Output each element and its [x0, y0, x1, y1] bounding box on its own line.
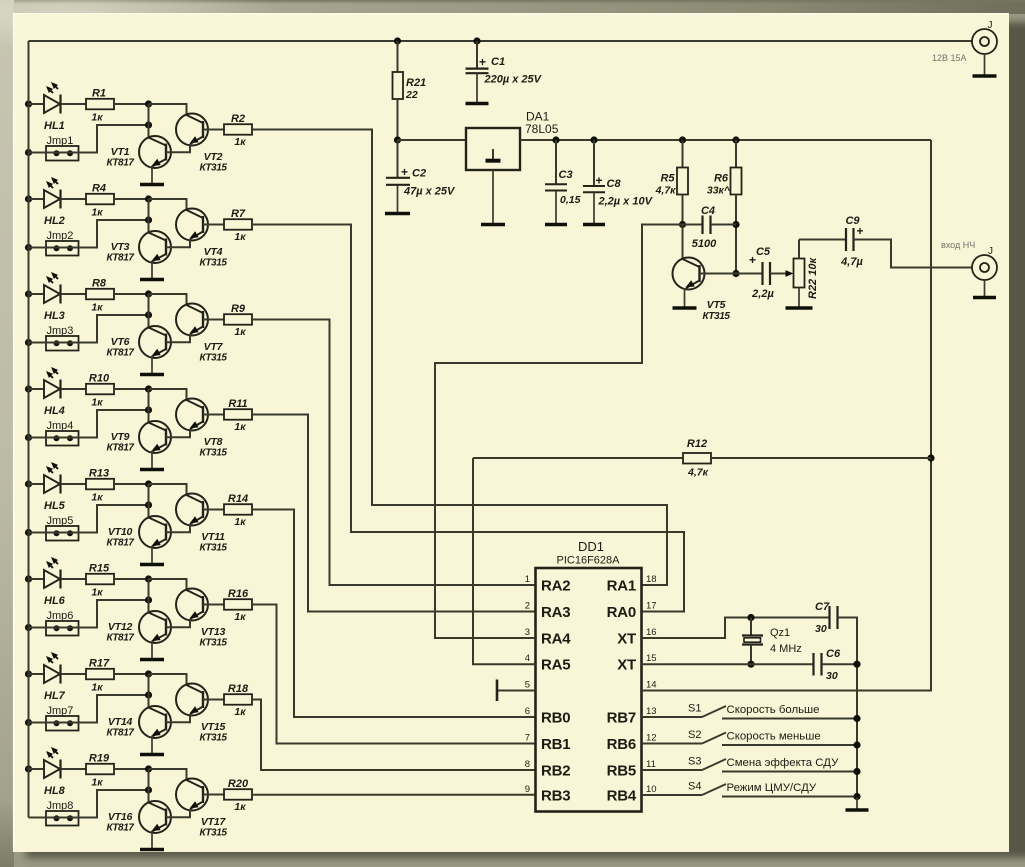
- svg-text:14: 14: [646, 680, 657, 691]
- svg-text:VT6: VT6: [111, 336, 130, 348]
- svg-text:VT12: VT12: [108, 621, 133, 633]
- svg-text:RA5: RA5: [541, 657, 570, 674]
- svg-text:VT16: VT16: [108, 811, 133, 823]
- svg-text:R8: R8: [92, 278, 107, 290]
- svg-text:2,2µ: 2,2µ: [751, 288, 774, 300]
- svg-text:вход НЧ: вход НЧ: [941, 240, 975, 250]
- svg-text:S3: S3: [688, 756, 701, 768]
- svg-text:1к: 1к: [234, 801, 246, 813]
- svg-text:13: 13: [646, 706, 657, 717]
- svg-text:RA4: RA4: [541, 631, 571, 648]
- svg-text:C8: C8: [607, 178, 622, 190]
- svg-text:КТ817: КТ817: [106, 538, 134, 549]
- svg-text:R1: R1: [92, 88, 106, 100]
- svg-text:33к^: 33к^: [707, 185, 731, 197]
- svg-text:7: 7: [525, 733, 530, 744]
- svg-text:R9: R9: [231, 303, 246, 315]
- svg-text:HL3: HL3: [44, 310, 65, 322]
- svg-text:R21: R21: [406, 77, 426, 89]
- svg-text:220µ x 25V: 220µ x 25V: [484, 74, 543, 86]
- svg-text:18: 18: [646, 574, 657, 585]
- svg-text:PIC16F628A: PIC16F628A: [557, 555, 621, 567]
- svg-text:КТ817: КТ817: [106, 823, 134, 834]
- svg-text:4 MHz: 4 MHz: [770, 643, 802, 655]
- svg-text:J: J: [988, 20, 993, 31]
- svg-text:3: 3: [525, 627, 530, 638]
- svg-text:RB7: RB7: [607, 710, 636, 727]
- svg-text:Qz1: Qz1: [770, 627, 790, 639]
- svg-text:VT3: VT3: [111, 241, 130, 253]
- svg-text:R6: R6: [714, 173, 729, 185]
- svg-text:КТ817: КТ817: [106, 728, 134, 739]
- svg-text:R18: R18: [228, 683, 249, 695]
- svg-text:+: +: [857, 224, 864, 238]
- svg-text:22: 22: [405, 89, 418, 101]
- svg-text:R7: R7: [231, 208, 246, 220]
- svg-text:HL7: HL7: [44, 690, 66, 702]
- svg-text:C4: C4: [701, 205, 715, 217]
- svg-text:RB3: RB3: [541, 788, 570, 805]
- svg-text:R14: R14: [228, 493, 248, 505]
- svg-text:C2: C2: [412, 168, 426, 180]
- svg-text:4,7к: 4,7к: [687, 467, 709, 479]
- svg-text:1к: 1к: [91, 492, 103, 504]
- svg-text:VT17: VT17: [201, 816, 227, 828]
- svg-text:RB6: RB6: [607, 736, 636, 753]
- svg-text:9: 9: [525, 784, 530, 795]
- svg-text:КТ315: КТ315: [199, 353, 227, 364]
- svg-text:КТ315: КТ315: [199, 828, 227, 839]
- svg-text:RB4: RB4: [607, 788, 637, 805]
- svg-text:S1: S1: [688, 703, 701, 715]
- svg-text:КТ817: КТ817: [106, 633, 134, 644]
- svg-text:S4: S4: [688, 781, 701, 793]
- svg-text:RB5: RB5: [607, 763, 636, 780]
- svg-text:КТ817: КТ817: [106, 443, 134, 454]
- svg-text:+: +: [479, 55, 486, 69]
- svg-text:R17: R17: [89, 658, 110, 670]
- svg-text:10: 10: [646, 784, 657, 795]
- svg-text:КТ315: КТ315: [702, 311, 730, 322]
- svg-text:R15: R15: [89, 563, 110, 575]
- svg-text:1к: 1к: [234, 421, 246, 433]
- svg-text:VT11: VT11: [201, 531, 225, 543]
- svg-text:Скорость меньше: Скорость меньше: [727, 731, 821, 743]
- svg-text:R16: R16: [228, 588, 249, 600]
- svg-text:5: 5: [525, 680, 530, 691]
- svg-text:J: J: [988, 246, 993, 257]
- svg-text:1: 1: [525, 574, 530, 585]
- svg-text:+: +: [749, 253, 756, 267]
- svg-text:XT: XT: [617, 657, 636, 674]
- svg-text:6: 6: [525, 706, 530, 717]
- svg-text:R10: R10: [89, 373, 110, 385]
- svg-text:VT1: VT1: [111, 146, 130, 158]
- svg-text:C5: C5: [756, 246, 771, 258]
- svg-text:C6: C6: [826, 648, 841, 660]
- svg-text:КТ817: КТ817: [106, 348, 134, 359]
- svg-text:C3: C3: [559, 169, 573, 181]
- svg-text:RA1: RA1: [607, 578, 636, 595]
- svg-text:15: 15: [646, 653, 657, 664]
- svg-text:12: 12: [646, 733, 657, 744]
- svg-text:30: 30: [826, 670, 838, 682]
- svg-text:1к: 1к: [234, 611, 246, 623]
- svg-text:11: 11: [646, 759, 656, 770]
- svg-text:КТ315: КТ315: [199, 163, 227, 174]
- svg-text:RA0: RA0: [607, 604, 636, 621]
- svg-text:HL6: HL6: [44, 595, 66, 607]
- svg-text:16: 16: [646, 627, 657, 638]
- svg-text:HL2: HL2: [44, 215, 65, 227]
- svg-text:XT: XT: [617, 631, 636, 648]
- svg-text:VT15: VT15: [201, 721, 226, 733]
- svg-text:1к: 1к: [91, 207, 103, 219]
- svg-text:30: 30: [815, 623, 827, 635]
- svg-text:КТ315: КТ315: [199, 258, 227, 269]
- svg-text:КТ817: КТ817: [106, 253, 134, 264]
- svg-text:17: 17: [646, 601, 657, 612]
- svg-text:HL1: HL1: [44, 120, 65, 132]
- svg-text:R22 10к: R22 10к: [807, 257, 819, 299]
- svg-text:1к: 1к: [234, 326, 246, 338]
- svg-text:VT13: VT13: [201, 626, 226, 638]
- svg-text:R13: R13: [89, 468, 109, 480]
- svg-text:R12: R12: [687, 438, 707, 450]
- svg-text:1к: 1к: [234, 516, 246, 528]
- svg-text:8: 8: [525, 759, 530, 770]
- svg-text:+: +: [596, 174, 603, 188]
- svg-text:1к: 1к: [234, 136, 246, 148]
- svg-text:R5: R5: [660, 173, 675, 185]
- svg-text:1к: 1к: [91, 302, 103, 314]
- svg-text:4,7µ: 4,7µ: [840, 256, 863, 268]
- svg-text:Смена эффекта СДУ: Смена эффекта СДУ: [727, 757, 840, 769]
- svg-text:RA2: RA2: [541, 578, 570, 595]
- svg-text:VT8: VT8: [204, 436, 223, 448]
- svg-text:RB0: RB0: [541, 710, 570, 727]
- svg-text:VT5: VT5: [707, 299, 726, 311]
- svg-text:DD1: DD1: [578, 539, 604, 554]
- svg-text:HL4: HL4: [44, 405, 65, 417]
- svg-text:R20: R20: [228, 778, 249, 790]
- svg-text:VT2: VT2: [204, 151, 223, 163]
- svg-text:C7: C7: [815, 601, 830, 613]
- svg-text:R19: R19: [89, 753, 110, 765]
- svg-text:VT10: VT10: [108, 526, 133, 538]
- svg-text:2: 2: [525, 601, 530, 612]
- svg-text:VT7: VT7: [204, 341, 224, 353]
- svg-text:1к: 1к: [91, 397, 103, 409]
- svg-text:VT14: VT14: [108, 716, 133, 728]
- svg-text:R4: R4: [92, 183, 106, 195]
- svg-text:VT9: VT9: [111, 431, 130, 443]
- svg-text:1к: 1к: [91, 777, 103, 789]
- svg-text:12В 15А: 12В 15А: [932, 53, 967, 63]
- svg-text:HL5: HL5: [44, 500, 66, 512]
- svg-text:1к: 1к: [91, 587, 103, 599]
- svg-text:КТ315: КТ315: [199, 638, 227, 649]
- svg-text:0,15: 0,15: [560, 194, 581, 206]
- svg-text:S2: S2: [688, 729, 701, 741]
- svg-text:4,7к: 4,7к: [655, 185, 677, 197]
- svg-text:+: +: [401, 165, 408, 179]
- svg-text:КТ817: КТ817: [106, 158, 134, 169]
- svg-text:1к: 1к: [91, 112, 103, 124]
- svg-text:HL8: HL8: [44, 785, 66, 797]
- svg-text:RB2: RB2: [541, 763, 570, 780]
- svg-text:RB1: RB1: [541, 736, 570, 753]
- svg-text:78L05: 78L05: [525, 122, 559, 136]
- svg-text:1к: 1к: [234, 231, 246, 243]
- svg-text:RA3: RA3: [541, 604, 570, 621]
- svg-text:R11: R11: [228, 398, 247, 410]
- svg-text:Режим ЦМУ/СДУ: Режим ЦМУ/СДУ: [727, 782, 817, 794]
- svg-text:5100: 5100: [692, 238, 717, 250]
- svg-text:КТ315: КТ315: [199, 543, 227, 554]
- svg-text:Скорость больше: Скорость больше: [727, 704, 820, 716]
- svg-text:VT4: VT4: [204, 246, 223, 258]
- svg-text:КТ315: КТ315: [199, 733, 227, 744]
- svg-text:4: 4: [525, 653, 530, 664]
- svg-text:C1: C1: [491, 56, 505, 68]
- svg-text:1к: 1к: [234, 706, 246, 718]
- svg-text:1к: 1к: [91, 682, 103, 694]
- svg-text:R2: R2: [231, 113, 245, 125]
- svg-text:47µ x 25V: 47µ x 25V: [403, 186, 456, 198]
- svg-text:КТ315: КТ315: [199, 448, 227, 459]
- svg-text:2,2µ x 10V: 2,2µ x 10V: [598, 196, 654, 208]
